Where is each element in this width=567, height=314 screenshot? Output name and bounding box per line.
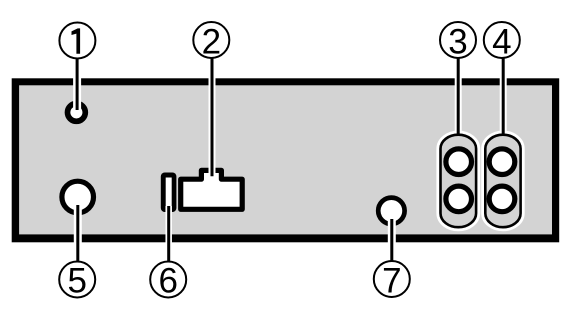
power connector (item 2) [181, 170, 243, 209]
RCA stadium right [485, 135, 520, 228]
svg-text:2: 2 [202, 23, 221, 62]
RCA jack left-bottom [446, 186, 472, 212]
release slot (item 6) [161, 173, 177, 213]
svg-text:7: 7 [382, 262, 401, 301]
leader line 3 [455, 59, 462, 134]
callout 5 [59, 262, 95, 298]
callout 6 [150, 262, 186, 298]
svg-text:6: 6 [158, 262, 177, 301]
RCA jack right-bottom [489, 186, 515, 212]
RCA stadium halo right (item 4) [485, 135, 520, 228]
callout 1 [59, 23, 95, 59]
callout 7 [374, 261, 410, 297]
leader line 7 [388, 219, 396, 261]
antenna jack hole (item 1) [68, 104, 86, 122]
svg-text:3: 3 [448, 23, 467, 62]
leader line 6 [165, 206, 172, 261]
callout 4 [484, 22, 520, 58]
callout 2 [193, 22, 229, 58]
RCA stadium halo left (item 3) [441, 135, 477, 228]
leader line 5 [74, 205, 82, 261]
antenna input hole (item 7) [378, 198, 404, 224]
leader line 2 [209, 59, 216, 177]
rear panel body [12, 78, 560, 242]
callout 3 [440, 22, 476, 58]
RCA jack right-top [489, 149, 515, 175]
bus connector hole (item 5) [62, 181, 94, 213]
leader line 1 [73, 59, 81, 110]
svg-text:4: 4 [492, 23, 511, 62]
RCA jack left-top [446, 149, 472, 175]
RCA stadium left [441, 135, 477, 228]
svg-text:5: 5 [67, 262, 86, 301]
leader line 4 [500, 59, 507, 134]
